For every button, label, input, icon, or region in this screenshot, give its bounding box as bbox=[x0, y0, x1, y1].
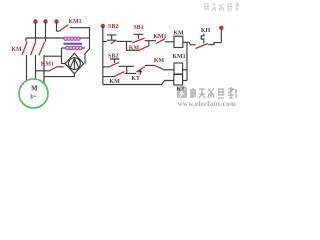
coil KM1 bbox=[174, 63, 183, 74]
contactor KM1 main contact slash bbox=[59, 25, 69, 32]
button SB1 start actuator bbox=[134, 34, 144, 38]
row2 wire a bbox=[119, 66, 137, 73]
relay KH contact slash bbox=[196, 44, 209, 49]
row3 wire start bbox=[103, 76, 113, 78]
node control right bbox=[219, 26, 223, 30]
brake electromagnet diamond bbox=[65, 53, 83, 73]
supply node L1 bbox=[33, 19, 37, 23]
wire row1 right bbox=[80, 37, 90, 39]
resistor R row1 bbox=[64, 37, 80, 40]
right vertical bbox=[186, 42, 188, 80]
core line blue bbox=[64, 43, 83, 45]
resistor R row2 bbox=[66, 46, 82, 49]
coil KT right wire bbox=[183, 80, 187, 82]
svg-text:KM1: KM1 bbox=[153, 34, 166, 40]
interlock KM1 contact slash bbox=[156, 39, 165, 44]
button SB2 actuator bbox=[107, 35, 117, 40]
wire brake bottom bbox=[44, 74, 74, 77]
svg-text:KM: KM bbox=[173, 31, 184, 37]
wire motor lead3 bbox=[43, 55, 45, 84]
svg-text:M: M bbox=[31, 85, 38, 92]
row2 wire b bbox=[145, 64, 155, 66]
KM main contact pole2 bbox=[31, 42, 36, 55]
wire row2 right stub bbox=[82, 47, 86, 49]
svg-text:KM: KM bbox=[11, 47, 22, 53]
coil KT bbox=[174, 75, 183, 86]
watermark logo bbox=[177, 87, 187, 98]
button SB2 stop slash bbox=[111, 40, 116, 44]
supply node L3 bbox=[54, 19, 58, 23]
wire phase2 vertical bbox=[45, 22, 47, 42]
row1 wire a bbox=[117, 40, 133, 42]
right rail bbox=[220, 28, 222, 43]
wire KM1 branch top bbox=[70, 28, 90, 64]
row1 wire e bbox=[208, 43, 221, 45]
node control left bbox=[101, 24, 105, 28]
KM self-hold branch up bbox=[148, 41, 150, 46]
wire to brake left bbox=[62, 48, 66, 64]
watermark glyphs bbox=[190, 87, 237, 98]
svg-text:KT: KT bbox=[131, 76, 140, 82]
wire brake contact out bbox=[58, 66, 64, 68]
button SB1 slash bbox=[132, 38, 144, 43]
svg-text:KM: KM bbox=[129, 46, 140, 52]
svg-text:KH: KH bbox=[201, 28, 211, 34]
svg-text:3~: 3~ bbox=[30, 94, 37, 100]
svg-text:KT: KT bbox=[176, 87, 185, 93]
button SB2 brake actuator bbox=[110, 59, 120, 63]
supply node L2 bbox=[43, 19, 47, 23]
wire phase3 branch bbox=[57, 30, 59, 32]
wire branch return bbox=[26, 37, 64, 39]
svg-text:KM: KM bbox=[109, 79, 120, 85]
wire row2 left stub bbox=[62, 47, 67, 49]
KM row3 contact slash bbox=[113, 72, 125, 77]
button SB2 brake slash bbox=[108, 63, 118, 68]
brake circle bbox=[69, 58, 81, 70]
svg-text:www.elecfans.com: www.elecfans.com bbox=[178, 100, 236, 108]
svg-text:KM1: KM1 bbox=[41, 61, 54, 67]
wire phase1 vertical bbox=[35, 22, 37, 42]
svg-text:KM1: KM1 bbox=[172, 54, 185, 60]
svg-text:KM: KM bbox=[154, 58, 165, 64]
row1 wire start bbox=[103, 41, 107, 43]
row1 wire d bbox=[183, 42, 196, 45]
row1 wire b bbox=[145, 40, 156, 42]
KM row2 contact slash bbox=[155, 66, 163, 70]
svg-text:SB1: SB1 bbox=[133, 25, 143, 31]
row2 wire c bbox=[163, 69, 174, 71]
KM main contact pole1 bbox=[22, 42, 27, 55]
wire stub upper pole1 bbox=[25, 38, 27, 42]
bottom rail bbox=[103, 81, 174, 85]
coil KM1 right wire bbox=[183, 69, 187, 71]
wire brake contact feed bbox=[36, 70, 49, 72]
relay KT delay symbol bbox=[139, 70, 142, 74]
brake spokes bbox=[70, 58, 78, 70]
relay KT contact slash bbox=[136, 67, 145, 72]
KM self-hold branch down bbox=[127, 42, 138, 51]
relay KH heater hook bbox=[201, 34, 204, 44]
left rail bbox=[102, 26, 104, 85]
KM self-hold slash bbox=[138, 46, 149, 51]
motor M bbox=[19, 79, 48, 108]
wire lead3 to brake bbox=[44, 55, 62, 57]
wire motor lead1 bbox=[26, 55, 28, 81]
svg-text:SB2: SB2 bbox=[108, 54, 118, 60]
contactor KM1 brake contact slash bbox=[49, 66, 59, 71]
faint watermark top-right bbox=[204, 3, 239, 12]
wire phase3 vertical bbox=[56, 22, 58, 31]
svg-text:KM1: KM1 bbox=[68, 19, 81, 25]
wire motor lead2 bbox=[35, 55, 37, 79]
KM main contact pole3 bbox=[39, 42, 45, 55]
coil KM bbox=[174, 36, 183, 47]
svg-text:SB2: SB2 bbox=[108, 24, 118, 30]
row2 wire start bbox=[103, 66, 109, 68]
row1 wire c bbox=[165, 41, 174, 43]
